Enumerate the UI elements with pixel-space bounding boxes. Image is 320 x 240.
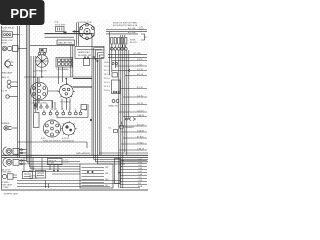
svg-text:L-65: L-65 bbox=[138, 177, 142, 179]
heater blower box bbox=[75, 46, 104, 58]
svg-text:BLK 18Y: BLK 18Y bbox=[137, 125, 145, 127]
tail lamp B bbox=[3, 158, 27, 167]
svg-text:D-5A 18: D-5A 18 bbox=[137, 130, 144, 133]
wire right run 4 bbox=[108, 54, 147, 56]
license lamp label bbox=[1, 182, 13, 189]
svg-text:D-4 16: D-4 16 bbox=[137, 96, 143, 98]
left bus triple bbox=[27, 25, 32, 156]
svg-text:BT BLK: BT BLK bbox=[137, 137, 144, 139]
svg-text:18G: 18G bbox=[105, 179, 109, 181]
license lamp bbox=[2, 174, 17, 179]
svg-text:BLOCK: BLOCK bbox=[130, 42, 137, 44]
svg-text:TO A-4: TO A-4 bbox=[104, 61, 110, 64]
park lamp bbox=[7, 80, 14, 88]
svg-text:TO B-1: TO B-1 bbox=[104, 66, 110, 68]
wire coil to distributor bbox=[73, 31, 80, 33]
right ladder labels bbox=[137, 59, 145, 151]
svg-text:* BUMPER LAMP: * BUMPER LAMP bbox=[3, 193, 19, 196]
svg-text:L-2 18: L-2 18 bbox=[64, 162, 69, 164]
svg-text:A-1 16R: A-1 16R bbox=[128, 27, 136, 30]
wire cluster drops bbox=[39, 77, 66, 104]
svg-text:T.S.: T.S. bbox=[108, 128, 112, 130]
svg-text:GT BLK: GT BLK bbox=[137, 143, 144, 145]
mid bus pair bbox=[34, 56, 38, 112]
svg-text:DISTRIBUTOR: DISTRIBUTOR bbox=[78, 22, 93, 24]
svg-text:TO G-1: TO G-1 bbox=[104, 86, 110, 88]
tail lamp A bbox=[3, 147, 27, 156]
svg-text:ACCESSORY FEED A-1A: ACCESSORY FEED A-1A bbox=[113, 24, 138, 27]
left bus pair bbox=[18, 26, 20, 158]
PDF badge bbox=[0, 0, 45, 25]
main bottom bus lower bbox=[2, 157, 149, 159]
bulkhead connector pins bbox=[111, 38, 127, 45]
wire terminal collector bbox=[57, 104, 88, 118]
body note bbox=[29, 168, 39, 180]
right ladder wires bbox=[112, 61, 147, 151]
headlamp switch upper fuse bbox=[112, 73, 118, 77]
svg-text:TURN LAMP: TURN LAMP bbox=[1, 171, 12, 174]
right margin bracket bbox=[141, 34, 147, 40]
svg-text:G-5 18: G-5 18 bbox=[137, 103, 143, 105]
terminal notes mid right bbox=[112, 62, 130, 72]
svg-text:LP SW: LP SW bbox=[49, 163, 55, 165]
rear lamp connector bbox=[115, 159, 121, 184]
main bottom bus upper bbox=[2, 154, 149, 156]
svg-text:X-2 18: X-2 18 bbox=[137, 69, 143, 71]
side marker bbox=[6, 95, 18, 98]
printed circuit connector bbox=[58, 83, 75, 100]
terminal row upper bbox=[34, 104, 48, 109]
svg-text:HEAD SW: HEAD SW bbox=[109, 105, 118, 108]
svg-text:VOLT REG: VOLT REG bbox=[55, 25, 66, 27]
wire top right run 1 bbox=[106, 29, 147, 31]
bulkhead terminal row bbox=[110, 45, 127, 50]
svg-text:PARK LP: PARK LP bbox=[1, 76, 10, 79]
wire trunk risers bbox=[92, 34, 104, 156]
wire gauge loop bbox=[33, 101, 53, 109]
trunk junction dot bbox=[90, 119, 92, 121]
fuse panel drops bbox=[52, 67, 70, 110]
junction dots rear bbox=[118, 160, 124, 174]
right TO label column bbox=[104, 61, 110, 92]
rear harness box left bbox=[80, 164, 113, 188]
svg-text:3: 3 bbox=[56, 109, 57, 111]
steering column connector bbox=[43, 120, 60, 137]
right harness verticals bbox=[110, 32, 129, 188]
bottom border wire bbox=[2, 189, 149, 191]
svg-text:S-61: S-61 bbox=[41, 138, 45, 140]
junction dot bbox=[73, 30, 75, 32]
svg-text:M-2: M-2 bbox=[138, 183, 141, 185]
column stalk component bbox=[34, 104, 40, 128]
svg-text:B-11 RD: B-11 RD bbox=[62, 138, 70, 140]
headlamp switch terminals bbox=[109, 100, 119, 108]
wire park lamp bbox=[14, 82, 18, 86]
wire alternator drop bbox=[41, 67, 43, 77]
distributor bbox=[79, 23, 94, 39]
connector pair arrows bbox=[126, 118, 136, 121]
svg-text:TO C-2: TO C-2 bbox=[104, 70, 110, 72]
svg-text:BALLAST RES: BALLAST RES bbox=[59, 41, 74, 44]
fuel gauge box bbox=[23, 172, 33, 179]
horn relay bbox=[2, 32, 13, 37]
ignition riser wires bbox=[77, 23, 79, 46]
svg-text:TO E-2: TO E-2 bbox=[104, 78, 110, 80]
svg-text:FLASHER: FLASHER bbox=[125, 126, 134, 129]
svg-text:5: 5 bbox=[69, 109, 70, 111]
turn flasher tag bbox=[108, 128, 118, 133]
rear ladder labels bbox=[138, 159, 143, 188]
alternator bbox=[36, 53, 49, 68]
splice block bbox=[64, 32, 67, 35]
svg-text:HEATER A/C: HEATER A/C bbox=[78, 51, 91, 54]
svg-text:L-62: L-62 bbox=[138, 159, 142, 161]
wire cross main bbox=[24, 76, 92, 78]
fuse block bbox=[56, 58, 73, 68]
wire horn relay to bus bbox=[13, 34, 20, 36]
svg-text:TO D-6: TO D-6 bbox=[104, 74, 110, 76]
ignition switch bbox=[61, 121, 77, 137]
wire top right run 3 bbox=[106, 33, 138, 35]
svg-text:L-60 18: L-60 18 bbox=[137, 111, 143, 113]
wire cross line bbox=[30, 45, 75, 47]
svg-text:B-2 18: B-2 18 bbox=[1, 91, 8, 93]
scan texture bbox=[0, 19, 149, 192]
dimmer switch bbox=[4, 126, 12, 130]
svg-text:16BK: 16BK bbox=[139, 29, 144, 31]
headlamp L bbox=[5, 60, 13, 69]
svg-text:A-2 16B: A-2 16B bbox=[128, 31, 136, 34]
back-up lamp switch bbox=[48, 159, 63, 172]
wire horn to bus bbox=[18, 48, 27, 50]
svg-text:PDF: PDF bbox=[10, 6, 36, 21]
bus corner bends bbox=[94, 153, 148, 164]
svg-text:4: 4 bbox=[62, 109, 63, 111]
svg-text:NOTE: NOTE bbox=[1, 43, 7, 45]
wire cluster feed B bbox=[73, 86, 92, 88]
alternator bracket bbox=[40, 48, 47, 52]
ballast resistor bbox=[57, 40, 75, 45]
trunk wires bottom left bbox=[22, 156, 80, 175]
wire main feed bbox=[45, 33, 93, 35]
svg-text:1: 1 bbox=[43, 109, 44, 111]
wire right run 5 bbox=[108, 56, 147, 58]
wire cluster feed A bbox=[73, 78, 92, 80]
svg-text:DIMMER: DIMMER bbox=[1, 123, 10, 125]
terminal row lower bbox=[43, 110, 82, 115]
left border wire bbox=[1, 26, 3, 190]
rear ladder wires bbox=[120, 161, 147, 188]
terminal tick labels bbox=[43, 109, 76, 111]
svg-text:M-1 18: M-1 18 bbox=[137, 74, 143, 76]
svg-text:L-7 16: L-7 16 bbox=[137, 65, 142, 67]
junction dots feed bbox=[33, 76, 67, 79]
page background bbox=[0, 0, 149, 198]
svg-text:V-3 18: V-3 18 bbox=[137, 59, 142, 61]
svg-text:6: 6 bbox=[75, 109, 76, 111]
rear box labels bbox=[105, 167, 109, 187]
wire dimmer to bus bbox=[12, 127, 18, 129]
svg-text:C-6A 18: C-6A 18 bbox=[137, 114, 144, 117]
horn H1 bbox=[2, 46, 18, 52]
trunk junction box bbox=[36, 171, 46, 179]
wire horizontal above bus bbox=[18, 142, 88, 148]
voltage regulator bbox=[56, 27, 65, 32]
svg-text:L-7 18BK: L-7 18BK bbox=[1, 187, 9, 189]
svg-text:CLUSTER CONN: CLUSTER CONN bbox=[31, 103, 47, 105]
svg-text:D-6A 18: D-6A 18 bbox=[137, 148, 144, 151]
splice junctions bbox=[93, 56, 99, 62]
svg-text:PC BOARD: PC BOARD bbox=[60, 101, 71, 104]
svg-text:MAIN HARNESS: MAIN HARNESS bbox=[76, 152, 91, 155]
svg-text:Q-5 18B: Q-5 18B bbox=[133, 53, 141, 55]
svg-text:B-7 18: B-7 18 bbox=[137, 87, 143, 89]
wire secondary feed bbox=[45, 36, 75, 38]
svg-text:TO F-3: TO F-3 bbox=[104, 82, 110, 84]
svg-text:L-63: L-63 bbox=[138, 165, 142, 167]
svg-text:ALTERNATOR: ALTERNATOR bbox=[33, 70, 47, 73]
svg-text:2: 2 bbox=[50, 109, 51, 111]
switch side labels bbox=[64, 160, 69, 164]
instrument cluster connector bbox=[30, 82, 48, 100]
horn relay 2 bbox=[84, 57, 90, 66]
wire top right run 2 bbox=[106, 31, 147, 33]
accessory riser pair bbox=[71, 45, 73, 77]
bottom left wires bbox=[17, 181, 120, 189]
svg-text:L-64: L-64 bbox=[138, 171, 142, 173]
svg-text:HEADLAMP: HEADLAMP bbox=[1, 72, 13, 75]
courtesy lamp block bbox=[81, 105, 87, 110]
headlamp switch bbox=[112, 80, 121, 94]
svg-text:TO H-5: TO H-5 bbox=[104, 90, 110, 92]
flasher bbox=[120, 122, 135, 130]
trunk vertical drops bbox=[24, 158, 42, 172]
